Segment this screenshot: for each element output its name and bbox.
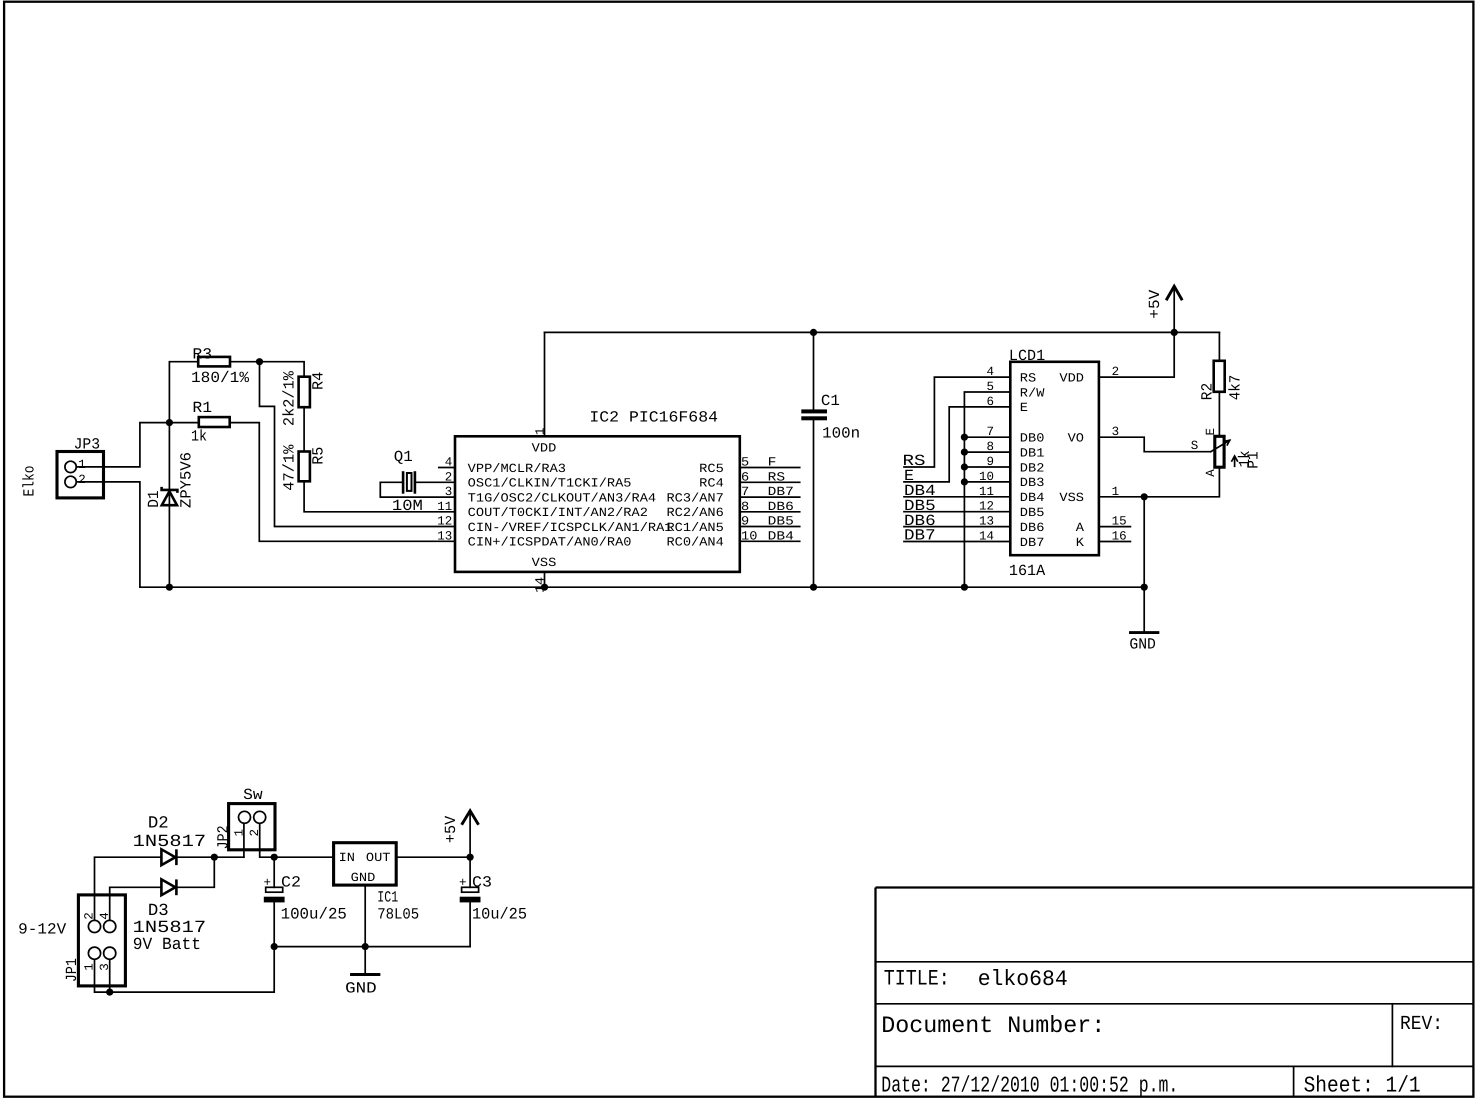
- capacitor C3: [460, 887, 481, 902]
- diode D2: [161, 849, 176, 865]
- svg-text:JP2: JP2: [215, 825, 233, 849]
- svg-text:DB7: DB7: [1020, 536, 1045, 550]
- junction IC1 GND: [362, 943, 369, 950]
- wire C2 bottom: [273, 903, 275, 947]
- wire divider tap to IC2 pin12: [260, 362, 456, 527]
- svg-text:180/1%: 180/1%: [191, 369, 250, 387]
- svg-text:Q1: Q1: [394, 448, 413, 466]
- svg-text:DB5: DB5: [1020, 506, 1045, 520]
- svg-text:DB5: DB5: [768, 515, 794, 529]
- svg-text:VSS: VSS: [1059, 491, 1084, 505]
- svg-text:7: 7: [986, 425, 994, 439]
- svg-text:1k: 1k: [191, 428, 207, 446]
- svg-text:10: 10: [979, 470, 994, 484]
- junction R3/R4/divider: [256, 358, 263, 365]
- wire R3 right to R4: [230, 362, 304, 377]
- svg-text:3: 3: [445, 485, 453, 499]
- svg-text:JP1: JP1: [63, 958, 81, 982]
- connector JP1: [78, 895, 125, 986]
- svg-text:VPP/MCLR/RA3: VPP/MCLR/RA3: [468, 462, 566, 476]
- svg-text:IC1: IC1: [377, 888, 398, 906]
- junction C2 top: [271, 854, 278, 861]
- svg-text:10M: 10M: [392, 497, 423, 515]
- junction JP1 pin3: [106, 989, 113, 996]
- svg-text:COUT/T0CKI/INT/AN2/RA2: COUT/T0CKI/INT/AN2/RA2: [468, 506, 648, 520]
- svg-text:4k7: 4k7: [1226, 375, 1244, 400]
- wire D1 branch: [168, 423, 170, 588]
- svg-text:TITLE:: TITLE:: [884, 966, 950, 991]
- svg-text:14: 14: [979, 530, 994, 544]
- svg-text:CIN+/ICSPDAT/AN0/RA0: CIN+/ICSPDAT/AN0/RA0: [468, 536, 632, 550]
- svg-text:R/W: R/W: [1020, 386, 1045, 400]
- svg-text:47/1%: 47/1%: [281, 444, 299, 491]
- net stub DB7 at IC2 pin 7: [740, 496, 800, 498]
- svg-text:1: 1: [534, 428, 548, 436]
- zener diode D1: [162, 487, 178, 505]
- svg-text:9V Batt: 9V Batt: [133, 936, 201, 955]
- svg-text:Elko: Elko: [21, 466, 39, 497]
- svg-text:T1G/OSC2/CLKOUT/AN3/RA4: T1G/OSC2/CLKOUT/AN3/RA4: [468, 491, 656, 505]
- svg-text:R1: R1: [192, 399, 212, 417]
- svg-text:13: 13: [979, 515, 994, 529]
- svg-text:9-12V: 9-12V: [18, 920, 67, 938]
- svg-text:C2: C2: [281, 874, 301, 892]
- svg-text:4: 4: [986, 365, 994, 379]
- wire JP3 pin2 to ground rail: [76, 482, 140, 587]
- svg-text:E: E: [1020, 401, 1028, 415]
- wire C2 top: [273, 857, 275, 887]
- svg-text:VDD: VDD: [1059, 371, 1084, 385]
- wire JP2 pin1 down: [243, 823, 245, 857]
- svg-text:11: 11: [979, 485, 994, 499]
- svg-text:+: +: [264, 876, 272, 890]
- LCD pin15 stub: [1099, 526, 1131, 528]
- title block: [876, 888, 1474, 1097]
- wire JP1 pin2 to D2 anode: [95, 857, 162, 920]
- wire IC2 pin2 to crystal: [416, 481, 455, 483]
- svg-text:78L05: 78L05: [377, 906, 419, 924]
- svg-text:GND: GND: [1129, 636, 1156, 654]
- svg-text:VO: VO: [1068, 432, 1084, 446]
- ground symbol GND left: [352, 947, 379, 975]
- diode D3: [161, 879, 176, 895]
- resistor R2: [1214, 361, 1225, 392]
- svg-text:12: 12: [979, 500, 994, 514]
- svg-text:elko684: elko684: [978, 967, 1068, 992]
- net stub E to LCD pin6: [904, 407, 1010, 482]
- svg-text:VSS: VSS: [532, 556, 557, 570]
- svg-text:100n: 100n: [822, 425, 860, 443]
- wire R1 left: [169, 422, 198, 424]
- svg-text:RC2/AN6: RC2/AN6: [667, 506, 724, 520]
- svg-text:+5V: +5V: [1146, 289, 1164, 319]
- svg-text:Document Number:: Document Number:: [881, 1013, 1105, 1040]
- svg-text:12: 12: [437, 515, 452, 529]
- net stub DB6 at IC2 pin 8: [740, 511, 800, 513]
- net stub DB4 at IC2 pin 10: [740, 540, 800, 542]
- svg-text:R2: R2: [1198, 383, 1216, 400]
- svg-text:DB6: DB6: [1020, 521, 1045, 535]
- wire R4 to R5: [303, 407, 305, 451]
- svg-text:REV:: REV:: [1400, 1013, 1443, 1036]
- wire DB stub at y=481.9: [964, 481, 1010, 483]
- wire IC2 VDD to top rail: [544, 332, 546, 436]
- svg-text:GND: GND: [345, 979, 377, 997]
- svg-text:P1: P1: [1245, 451, 1263, 468]
- wire C1 top: [813, 332, 815, 410]
- wire IC1 GND to ground rail: [364, 885, 366, 947]
- net wire DB5 to LCD: [904, 511, 1010, 513]
- junction C1 bottom: [810, 584, 817, 591]
- connector JP3: [57, 452, 104, 498]
- svg-text:K: K: [1076, 536, 1085, 550]
- svg-text:DB1: DB1: [1020, 446, 1045, 460]
- junction C2 bottom: [271, 943, 278, 950]
- svg-text:ZPY5V6: ZPY5V6: [177, 452, 195, 508]
- wire C1 bottom: [813, 420, 815, 587]
- net stub RS to LCD pin4: [904, 377, 1010, 467]
- wire C3 top: [469, 857, 471, 887]
- net wire DB4 to LCD: [904, 496, 1010, 498]
- wire D2 cathode to JP2 pin1: [178, 856, 244, 858]
- wire JP1 pin3 down: [109, 959, 111, 992]
- supply +5V left: [462, 811, 477, 857]
- svg-text:E: E: [1204, 428, 1218, 436]
- svg-text:D1: D1: [145, 490, 163, 507]
- svg-text:RC4: RC4: [699, 477, 724, 491]
- svg-text:C3: C3: [472, 874, 492, 892]
- svg-text:CIN-/VREF/ICSPCLK/AN1/RA1: CIN-/VREF/ICSPCLK/AN1/RA1: [468, 521, 673, 535]
- svg-text:S: S: [1191, 439, 1199, 453]
- junction ground rail right: [1141, 584, 1148, 591]
- svg-text:RC5: RC5: [699, 462, 724, 476]
- wire JP3 pin1 to R1 junction: [76, 423, 169, 467]
- wire VSS to ground symbol: [1143, 497, 1145, 631]
- junction VSS/GND: [1141, 493, 1148, 500]
- svg-text:RS: RS: [768, 470, 786, 484]
- junction at (964,452.1): [961, 449, 968, 456]
- potentiometer P1: [1211, 436, 1238, 467]
- svg-text:10u/25: 10u/25: [472, 906, 527, 924]
- junction D2/D3 cathodes: [211, 854, 218, 861]
- wire JP1 pin4 to D3 anode: [110, 887, 162, 920]
- resistor R1: [199, 417, 230, 427]
- wire D3 cathode up to junction: [178, 857, 215, 887]
- ground symbol GND right: [1131, 631, 1158, 634]
- svg-text:DB0: DB0: [1020, 432, 1045, 446]
- svg-text:100u/25: 100u/25: [281, 906, 347, 924]
- svg-text:1N5817: 1N5817: [133, 833, 207, 852]
- IC2 pin4 stub wire: [439, 467, 455, 469]
- junction R1 left: [166, 419, 173, 426]
- svg-text:IC2 PIC16F684: IC2 PIC16F684: [589, 409, 718, 427]
- switch connector JP2: [229, 804, 275, 850]
- regulator IC1 box: [334, 843, 397, 885]
- svg-text:A: A: [1204, 469, 1218, 477]
- wire LCD pin3 VO to P1 wiper: [1099, 437, 1211, 452]
- svg-text:F: F: [768, 456, 777, 470]
- wire R5 bottom to IC2 pin11: [304, 481, 455, 512]
- svg-text:R3: R3: [192, 345, 212, 363]
- svg-text:OUT: OUT: [366, 851, 391, 865]
- junction R/W net at ground rail: [961, 584, 968, 591]
- wire R3 left vertical: [169, 362, 198, 423]
- svg-text:9: 9: [986, 455, 994, 469]
- junction at (964,467.0): [961, 463, 968, 470]
- LCD pin16 stub: [1099, 541, 1131, 543]
- resistor R3: [198, 357, 230, 367]
- svg-text:DB7: DB7: [768, 485, 794, 499]
- wire JP2 pin2 to IC1 IN: [260, 823, 334, 857]
- svg-text:DB3: DB3: [1020, 476, 1045, 490]
- junction IC2 VSS: [541, 584, 548, 591]
- svg-text:LCD1: LCD1: [1009, 347, 1045, 365]
- wire R/W DB0-DB3 to ground: [964, 392, 1010, 587]
- junction C1 top: [810, 329, 817, 336]
- svg-text:Date: 27/12/2010 01:00:52 p.m.: Date: 27/12/2010 01:00:52 p.m.: [881, 1073, 1178, 1099]
- svg-text:Sw: Sw: [243, 786, 263, 804]
- junction at (964,437.2): [961, 434, 968, 441]
- net stub F at IC2 pin 5: [740, 467, 800, 469]
- wire DB stub at y=437.2: [964, 436, 1010, 438]
- svg-text:R5: R5: [309, 447, 327, 465]
- svg-text:A: A: [1076, 521, 1085, 535]
- wire top rail to R2: [1218, 332, 1220, 360]
- net stub RS at IC2 pin 6: [740, 481, 800, 483]
- crystal Q1: [403, 471, 415, 494]
- svg-text:+: +: [459, 876, 467, 890]
- svg-text:R4: R4: [309, 372, 327, 390]
- wire C3 bottom: [469, 903, 471, 947]
- wire DB stub at y=452.1: [964, 451, 1010, 453]
- svg-text:Sheet: 1/1: Sheet: 1/1: [1304, 1073, 1421, 1099]
- svg-text:13: 13: [437, 529, 452, 543]
- junction +5V: [1171, 329, 1178, 336]
- svg-text:RC0/AN4: RC0/AN4: [667, 536, 724, 550]
- wire R1 right to IC2 pin13: [230, 423, 455, 542]
- svg-text:2k2/1%: 2k2/1%: [281, 370, 299, 426]
- net wire DB6 to LCD: [904, 526, 1010, 528]
- svg-text:RC1/AN5: RC1/AN5: [667, 521, 724, 535]
- wire ground bottom rail: [140, 586, 1144, 588]
- svg-text:161A: 161A: [1009, 562, 1046, 580]
- svg-text:+5V: +5V: [442, 815, 460, 843]
- junction D1 bottom: [166, 584, 173, 591]
- svg-text:DB6: DB6: [768, 500, 794, 514]
- op IC2 box: [455, 436, 740, 572]
- capacitor C1: [801, 409, 827, 420]
- wire LCD pin2 VDD to +5V rail: [1099, 332, 1174, 377]
- wire +5V top rail: [545, 331, 1220, 333]
- svg-text:RS: RS: [1020, 371, 1036, 385]
- svg-text:JP3: JP3: [74, 435, 101, 453]
- svg-text:C1: C1: [821, 392, 840, 410]
- svg-text:GND: GND: [351, 871, 376, 885]
- svg-text:6: 6: [986, 395, 994, 409]
- svg-text:2: 2: [445, 470, 453, 484]
- svg-text:DB7: DB7: [904, 527, 936, 545]
- net wire DB7 to LCD: [904, 541, 1010, 543]
- svg-text:2: 2: [78, 473, 86, 487]
- svg-text:5: 5: [986, 380, 994, 394]
- svg-text:8: 8: [986, 440, 994, 454]
- wire IC2 VSS to ground rail: [544, 572, 546, 587]
- wire JP1 pins 1/3 to ground rail: [95, 947, 275, 993]
- wire R2 to P1: [1218, 392, 1220, 437]
- supply +5V right: [1167, 286, 1182, 332]
- junction at (964,481.9): [961, 478, 968, 485]
- svg-text:D2: D2: [148, 815, 169, 834]
- svg-text:RC3/AN7: RC3/AN7: [667, 491, 724, 505]
- junction IC1 OUT / C3: [467, 854, 474, 861]
- svg-text:11: 11: [437, 500, 452, 514]
- svg-text:DB2: DB2: [1020, 461, 1045, 475]
- resistor R5: [299, 452, 310, 482]
- net stub DB5 at IC2 pin 9: [740, 526, 800, 528]
- wire DB stub at y=467.0: [964, 466, 1010, 468]
- ground bottom rail (psu): [274, 946, 470, 948]
- resistor R4: [299, 377, 310, 408]
- svg-text:IN: IN: [339, 851, 355, 865]
- svg-text:OSC1/CLKIN/T1CKI/RA5: OSC1/CLKIN/T1CKI/RA5: [468, 477, 632, 491]
- capacitor C2: [264, 887, 285, 902]
- wire crystal to IC2 pin3: [380, 482, 455, 497]
- wire LCD pin1 VSS to P1 bottom: [1099, 467, 1220, 497]
- wire IC1 OUT to +5V: [396, 856, 470, 858]
- svg-text:VDD: VDD: [532, 442, 557, 456]
- svg-text:DB4: DB4: [768, 529, 794, 543]
- svg-text:DB4: DB4: [1020, 491, 1045, 505]
- svg-text:1: 1: [78, 458, 86, 472]
- display LCD1 box: [1010, 362, 1099, 555]
